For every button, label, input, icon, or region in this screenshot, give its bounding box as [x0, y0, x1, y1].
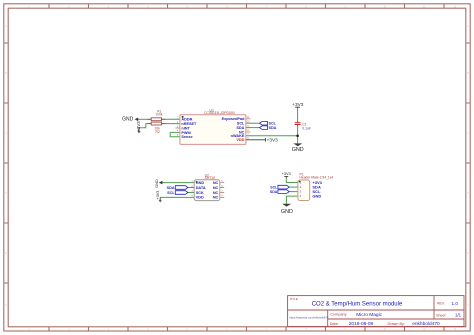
svg-text:CO2 & Temp/Hum Sensor module: CO2 & Temp/Hum Sensor module — [312, 302, 403, 308]
svg-text:SDA: SDA — [270, 190, 278, 194]
svg-text:VDD: VDD — [196, 196, 204, 200]
wire net port SCL to U2 SCK — [188, 192, 195, 194]
resistor R1 100k — [148, 109, 166, 120]
svg-text:ExposedPad: ExposedPad — [222, 117, 245, 121]
svg-text:SCK: SCK — [196, 191, 204, 195]
svg-text:Date:: Date: — [330, 322, 339, 326]
svg-text:SCL: SCL — [269, 122, 277, 126]
svg-text:+3V3: +3V3 — [136, 121, 141, 132]
net port SDA (to U2 DATA) — [167, 186, 188, 190]
svg-text:E: E — [5, 251, 7, 255]
net port SCL (to U2 SCK) — [167, 191, 188, 195]
wire loop PWM to Sense — [170, 132, 180, 136]
U1 pin numbers — [177, 116, 250, 140]
svg-text:GND: GND — [122, 117, 134, 123]
U2 pin numbers — [191, 180, 223, 198]
resistor R2 10k — [148, 122, 166, 134]
svg-text:Company:: Company: — [330, 313, 347, 317]
svg-text:nRESET: nRESET — [181, 122, 197, 126]
junction — [296, 135, 299, 138]
svg-text:C: C — [5, 131, 7, 135]
wire GND to U2 GND pin — [162, 182, 194, 184]
svg-text:Micro Magic: Micro Magic — [356, 312, 382, 318]
wire net port SDA to U2 DATA — [188, 187, 195, 189]
svg-text:A: A — [5, 24, 7, 28]
wire P1 pin4 to GND — [286, 196, 298, 204]
svg-text:A: A — [467, 24, 469, 28]
svg-text:GND: GND — [196, 181, 205, 185]
ground flag GND (below junction) — [292, 143, 304, 153]
wire net port SCL to P1 pin2 — [289, 186, 298, 188]
power flag +3V3 (VDD pin) — [246, 138, 278, 143]
ground flag GND (left of R1) — [122, 117, 138, 123]
svg-text:VDD: VDD — [236, 138, 244, 142]
svg-text:nINT: nINT — [181, 126, 190, 130]
svg-text:https://easyeda.com/enkhbold47: https://easyeda.com/enkhbold470 — [289, 315, 328, 319]
svg-text:SCL: SCL — [237, 122, 245, 126]
svg-text:C: C — [467, 131, 469, 135]
net port SCL (to P1 pin2) — [270, 185, 289, 189]
power flag +3V3 (feeding R2) — [136, 121, 141, 133]
op-amp U1 CCS811B-JOPD500 — [175, 108, 250, 144]
svg-text:Sheet:: Sheet: — [436, 313, 446, 317]
net port SDA — [260, 126, 277, 130]
svg-text:GND: GND — [312, 194, 321, 199]
wire U1 SDA to net port SDA — [246, 127, 260, 129]
svg-text:Sense: Sense — [181, 135, 192, 139]
wire junction to GND — [297, 136, 299, 144]
svg-text:NC: NC — [213, 186, 219, 190]
svg-text:2019-08-08: 2019-08-08 — [349, 321, 374, 327]
wire R2 to U1 nRESET — [162, 123, 181, 125]
svg-text:D: D — [5, 191, 7, 195]
connector P1 Header-Male-2.54_1x4 — [298, 173, 333, 201]
svg-text:SCL: SCL — [270, 185, 278, 189]
wire +3V3 to P1 pin1 — [286, 177, 298, 182]
svg-text:GND: GND — [292, 147, 304, 153]
svg-text:100k: 100k — [155, 113, 163, 117]
svg-text:B: B — [467, 71, 469, 75]
svg-text:SDA: SDA — [269, 126, 277, 130]
wire GND to R1 — [138, 118, 151, 120]
svg-text:GND: GND — [281, 209, 293, 215]
net port SCL — [260, 122, 277, 126]
U1 pin names — [181, 117, 245, 142]
wire +3V3 to C1 — [297, 108, 299, 123]
P1 pin numbers — [300, 181, 302, 199]
svg-text:ADDR: ADDR — [181, 118, 192, 122]
svg-text:PWM: PWM — [181, 131, 190, 135]
svg-text:enkhbold470: enkhbold470 — [412, 321, 440, 327]
svg-text:R2: R2 — [155, 130, 159, 134]
svg-text:B: B — [5, 71, 7, 75]
svg-text:0.1uF: 0.1uF — [302, 127, 311, 131]
wire +3V3 flag to R2 — [139, 124, 151, 128]
svg-text:+3V3: +3V3 — [282, 171, 291, 176]
transistor U2 SHT10 — [194, 173, 224, 200]
svg-text:D: D — [467, 191, 469, 195]
wire R1 to U1 ADDR — [162, 118, 181, 120]
svg-text:GND: GND — [154, 179, 159, 188]
svg-text:1.0: 1.0 — [452, 301, 459, 306]
svg-text:Header-Male-2.54_1x4: Header-Male-2.54_1x4 — [300, 175, 334, 179]
svg-text:E: E — [467, 251, 469, 255]
ground flag GND (left of U2, rotated) — [154, 179, 163, 188]
net port SDA (to P1 pin3) — [270, 190, 289, 194]
wire net port SDA to P1 pin3 — [289, 191, 298, 193]
svg-text:Drawn By:: Drawn By: — [388, 322, 406, 326]
svg-text:SDA: SDA — [167, 186, 175, 190]
svg-text:TITLE:: TITLE: — [290, 297, 299, 301]
power flag +3V3 (top of C1) — [292, 102, 303, 108]
ground flag GND (below P1) — [281, 204, 293, 215]
svg-text:DATA: DATA — [196, 186, 206, 190]
capacitor C1 0.1uF — [295, 121, 312, 131]
power flag +3V3 (above P1) — [282, 171, 291, 177]
U2 pin names — [196, 181, 219, 200]
svg-text:NC: NC — [213, 181, 219, 185]
wire nWAKE to junction — [246, 135, 298, 137]
svg-text:+3V3: +3V3 — [267, 138, 278, 143]
svg-text:NC: NC — [213, 191, 219, 195]
svg-text:1/1: 1/1 — [455, 313, 462, 318]
svg-text:+3V3: +3V3 — [292, 102, 303, 107]
P1 pin names — [312, 180, 322, 199]
svg-text:REV:: REV: — [437, 302, 445, 306]
power flag +3V3 (left of U2 VDD, rotated) — [156, 191, 162, 203]
wire C1 to junction — [297, 126, 299, 136]
wire +3V3 to U2 VDD — [160, 196, 194, 198]
svg-text:NC: NC — [213, 196, 219, 200]
wire U1 SCL to net port SCL — [246, 122, 260, 124]
svg-text:SCL: SCL — [167, 191, 175, 195]
svg-text:+3V3: +3V3 — [156, 191, 160, 200]
